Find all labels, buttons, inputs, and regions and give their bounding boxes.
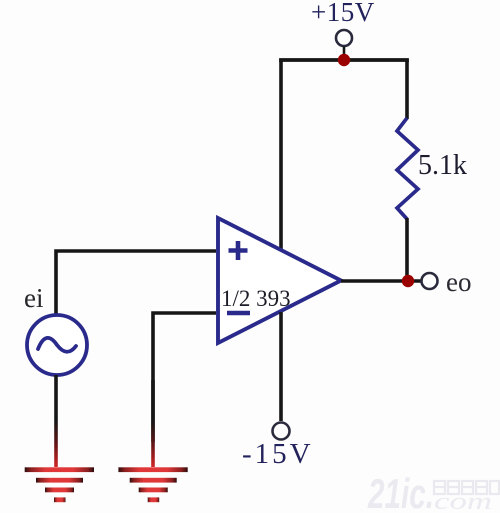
wire source to ground [54,375,58,467]
wire stub terminal to rail [343,47,346,58]
junction dot output [402,275,414,287]
wire - input [153,313,216,442]
wire V+ pin [279,60,283,250]
svg-text:1/2 393: 1/2 393 [221,286,291,311]
source sine symbol [38,338,76,352]
op-amp - input symbol [227,311,250,315]
source V1 ei circle [27,315,87,375]
wire V- pin [279,312,283,421]
op-amp U1 triangle 1/2 393 [218,218,341,343]
svg-text:com: com [434,489,492,513]
svg-text:5.1k: 5.1k [418,150,467,181]
ground G2 [118,467,187,502]
svg-text:ei: ei [24,283,44,313]
wire + input [56,251,216,314]
wire inverting input to ground [151,380,155,467]
junction dot top [338,54,350,66]
svg-text:-15V: -15V [242,438,314,470]
wire rail to resistor [405,60,409,119]
eo terminal circle [422,273,438,289]
wire resistor to output node [405,218,409,282]
wire +15V rail [281,60,407,62]
resistor R1 5.1k [397,118,418,219]
watermark 21ic [367,470,499,513]
svg-text:eo: eo [446,267,471,297]
-15V terminal circle [273,423,290,440]
op-amp + input symbol [229,241,248,260]
svg-text:21ic.: 21ic. [367,470,434,513]
svg-text:+15V: +15V [311,0,375,27]
wire output [341,279,421,283]
+15V terminal circle [336,30,352,46]
ground G1 [25,467,94,502]
